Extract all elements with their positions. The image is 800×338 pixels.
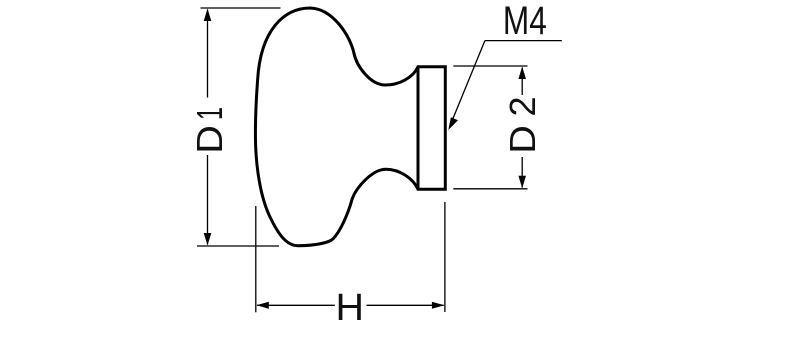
H dimension line right segment xyxy=(367,304,444,306)
D2 bottom extension line xyxy=(453,188,527,190)
svg-text:D: D xyxy=(191,125,231,154)
D2 dimension line upper segment xyxy=(521,68,523,96)
M4 leader arrowhead xyxy=(448,117,458,130)
M4 leader diagonal xyxy=(450,41,485,127)
D2 dimension line lower segment xyxy=(521,157,523,188)
H dimension line left segment xyxy=(257,304,335,306)
svg-text:D: D xyxy=(504,125,544,154)
D1 arrow down xyxy=(204,233,212,245)
D2 arrow down xyxy=(518,176,526,188)
svg-text:2: 2 xyxy=(502,96,543,116)
flange left edge line xyxy=(417,67,420,190)
M4 leader horizontal xyxy=(485,40,562,42)
D1 dimension line upper segment xyxy=(207,10,209,98)
D2 arrow up xyxy=(518,67,526,79)
H right extension line xyxy=(444,202,446,312)
D1 dimension line lower segment xyxy=(207,155,209,245)
svg-text:H: H xyxy=(336,287,365,329)
H left extension line xyxy=(255,206,257,312)
svg-text:1: 1 xyxy=(191,107,230,120)
svg-text:M4: M4 xyxy=(503,0,547,43)
knob body outline xyxy=(255,8,445,246)
D2 top extension line xyxy=(453,65,527,67)
D1 top extension line xyxy=(201,7,281,9)
H arrow left xyxy=(256,302,268,309)
D1 arrow up xyxy=(204,9,212,21)
D1 bottom extension line xyxy=(197,245,279,247)
H arrow right xyxy=(432,302,444,309)
